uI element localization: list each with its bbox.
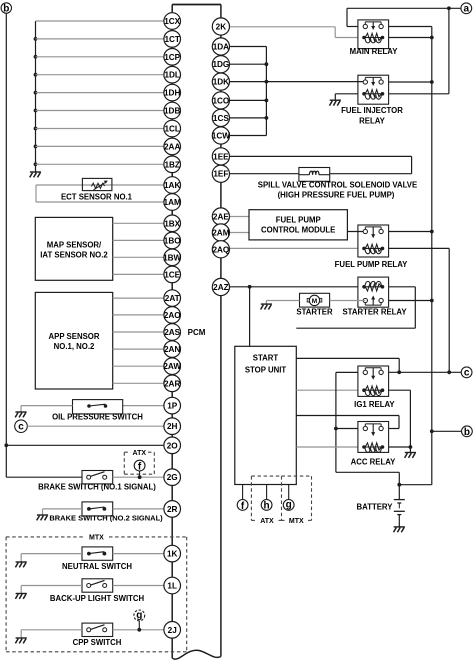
svg-text:ECT SENSOR NO.1: ECT SENSOR NO.1 <box>61 193 133 202</box>
svg-text:2H: 2H <box>167 422 178 431</box>
wire 1CO to injector bus <box>230 99 267 101</box>
wire ACC coil to ground <box>389 445 413 452</box>
ground (brake switch NO.2) <box>37 515 48 520</box>
svg-text:1BZ: 1BZ <box>164 160 179 169</box>
ground (back-up light switch) <box>15 594 26 599</box>
wire 2AZ tap to start stop unit <box>249 287 251 347</box>
PCM pin 2J <box>164 622 181 639</box>
PCM pin 1CL <box>164 120 181 137</box>
wire 2AE to fuel pump control module <box>230 216 250 218</box>
wire b rail (left) <box>4 13 82 477</box>
PCM pin 2AS <box>164 324 181 341</box>
node f (start stop unit) <box>237 500 248 512</box>
wire 1DH to ground bus <box>36 92 164 94</box>
svg-text:1P: 1P <box>167 402 178 411</box>
node g (start stop unit) <box>283 499 294 510</box>
wire f to 2G line <box>138 471 142 479</box>
svg-text:2K: 2K <box>216 23 227 32</box>
wire start stop unit stub to g <box>288 485 290 500</box>
svg-text:1CT: 1CT <box>164 35 179 44</box>
wire 1CX to ground bus <box>36 20 164 22</box>
PCM pin 1DL <box>164 66 181 83</box>
svg-text:1EF: 1EF <box>213 170 228 179</box>
PCM pin 1DB <box>164 102 181 119</box>
svg-text:STARTER RELAY: STARTER RELAY <box>342 308 407 317</box>
wire 2AS to APP sensor <box>113 331 164 333</box>
svg-text:1DL: 1DL <box>164 71 179 80</box>
ground (battery) <box>394 527 405 532</box>
ground (CPP switch) <box>15 638 26 643</box>
wire node b to B+ rail <box>432 430 462 432</box>
svg-text:BACK-UP LIGHT SWITCH: BACK-UP LIGHT SWITCH <box>50 594 145 603</box>
svg-text:b: b <box>3 4 9 15</box>
svg-text:2AZ: 2AZ <box>213 283 228 292</box>
wire back-up light switch to ground <box>21 586 82 594</box>
wire 2G to brake switch NO.1 <box>113 476 164 478</box>
wire 1DL to ground bus <box>36 74 164 76</box>
wire fuel pump relay coil to node c rail <box>389 248 450 372</box>
wire IG1 coil to ground <box>389 390 411 447</box>
svg-text:STARTER: STARTER <box>296 308 333 317</box>
svg-text:2AM: 2AM <box>212 229 229 238</box>
wire fuel pump relay contact to B+ rail <box>389 231 432 233</box>
wire start stop unit stub to f <box>242 485 244 500</box>
svg-text:1BX: 1BX <box>164 219 180 228</box>
svg-text:2AT: 2AT <box>165 294 180 303</box>
wire 1CL to ground bus <box>36 128 164 130</box>
svg-text:ATX: ATX <box>260 518 274 525</box>
svg-text:1CE: 1CE <box>164 270 180 279</box>
svg-text:1L: 1L <box>167 582 177 591</box>
battery <box>357 485 405 527</box>
PCM pin 2AQ <box>212 241 230 258</box>
starter relay <box>342 277 407 316</box>
PCM pin 2AE <box>212 208 229 225</box>
svg-text:IAT SENSOR NO.2: IAT SENSOR NO.2 <box>40 251 108 260</box>
MTX dashed box (start stop unit) <box>282 476 312 525</box>
PCM pin 1CP <box>164 49 181 66</box>
svg-text:BRAKE SWITCH (NO.1 SIGNAL): BRAKE SWITCH (NO.1 SIGNAL) <box>38 483 156 492</box>
PCM pin 1CE <box>164 266 181 283</box>
svg-text:2O: 2O <box>167 441 179 450</box>
fuel pump relay <box>335 225 408 269</box>
svg-text:2AR: 2AR <box>164 379 180 388</box>
wire start stop unit to ACC relay coil <box>296 446 358 448</box>
svg-text:1K: 1K <box>167 550 178 559</box>
wire starter to starter relay contact <box>330 300 366 302</box>
wire fuel injector relay contact to B+ rail <box>389 81 432 83</box>
svg-text:2G: 2G <box>167 473 178 482</box>
node c (to 2H) <box>15 420 28 433</box>
MTX dashed box <box>6 535 187 652</box>
wire 2AM to fuel pump control module <box>230 232 250 234</box>
svg-text:a: a <box>464 4 470 15</box>
wire brake switch NO.2 to ground <box>43 509 83 515</box>
wire starter relay contact to B+ rail <box>389 300 432 302</box>
wire IG1 contact to node c rail <box>389 370 462 374</box>
svg-text:1CW: 1CW <box>212 132 230 141</box>
svg-text:(HIGH PRESSURE FUEL PUMP): (HIGH PRESSURE FUEL PUMP) <box>278 191 395 200</box>
wire main relay contact to B+ rail <box>389 26 432 28</box>
svg-text:STOP UNIT: STOP UNIT <box>245 366 287 375</box>
PCM pin 2AW <box>163 358 181 375</box>
ground (sensor bus) <box>30 172 41 177</box>
ATX dashed box (brake) <box>124 450 154 474</box>
PCM pin 1DA <box>212 38 229 55</box>
PCM pin 1DH <box>164 84 181 101</box>
brake switch (NO.1 signal) <box>38 471 156 492</box>
wire 2AW to APP sensor <box>113 365 164 367</box>
wire start stop unit to ACC relay contact <box>296 416 399 429</box>
svg-text:1DA: 1DA <box>213 43 229 52</box>
wire 1L to back-up light switch <box>113 585 164 587</box>
PCM pin 2AN <box>164 341 181 358</box>
PCM pin 1BO <box>164 232 181 249</box>
ECT sensor NO.1 <box>36 185 164 202</box>
svg-text:1CS: 1CS <box>213 114 229 123</box>
svg-text:1AK: 1AK <box>164 181 180 190</box>
ground (starter) <box>261 304 272 309</box>
svg-text:ATX: ATX <box>133 450 147 457</box>
svg-text:1CP: 1CP <box>164 53 180 62</box>
svg-text:APP SENSOR: APP SENSOR <box>49 332 100 341</box>
wire 1P to oil pressure switch <box>123 405 164 407</box>
CPP switch <box>73 623 122 647</box>
wire ACC contact left to B+ branch <box>336 428 358 430</box>
wire starter relay coil to start stop unit <box>296 287 415 328</box>
PCM pin 1CX <box>164 13 181 30</box>
wire CPP switch to ground <box>21 630 82 638</box>
wire 1DG to injector bus <box>230 63 267 65</box>
svg-text:CPP SWITCH: CPP SWITCH <box>73 638 122 647</box>
svg-text:CONTROL MODULE: CONTROL MODULE <box>261 226 335 235</box>
wire 2J to CPP switch <box>113 629 164 631</box>
MAP sensor / IAT sensor NO.2 <box>35 217 112 280</box>
svg-text:PCM: PCM <box>188 328 206 337</box>
svg-text:1DG: 1DG <box>212 60 229 69</box>
svg-text:M: M <box>312 298 317 305</box>
svg-text:1BO: 1BO <box>164 236 181 245</box>
wire 1CW to injector bus <box>230 135 267 137</box>
svg-text:1AM: 1AM <box>164 198 181 207</box>
svg-text:2AN: 2AN <box>164 345 180 354</box>
PCM pin 1BW <box>163 249 181 266</box>
wire 2H to node c <box>27 425 164 427</box>
node h (start stop unit) <box>261 500 272 512</box>
wire neutral switch to ground <box>21 554 82 562</box>
wire fuel injector relay coil to ground <box>335 94 358 100</box>
PCM pin 1BX <box>164 215 181 232</box>
svg-text:NO.1, NO.2: NO.1, NO.2 <box>54 342 95 351</box>
svg-text:2AS: 2AS <box>164 328 180 337</box>
wire 2AR to APP sensor <box>113 382 164 384</box>
wire 1DK to fuel injector relay contact <box>230 81 366 83</box>
svg-text:SPILL VALVE CONTROL SOLENOID V: SPILL VALVE CONTROL SOLENOID VALVE <box>258 181 417 190</box>
node c (right) <box>461 367 472 379</box>
svg-text:1CO: 1CO <box>212 96 229 105</box>
svg-text:MTX: MTX <box>289 518 304 525</box>
svg-text:START: START <box>253 354 279 363</box>
wire start stop unit to IG1 relay coil <box>296 389 358 391</box>
svg-text:1DB: 1DB <box>164 107 180 116</box>
wire g to 2J line <box>137 621 141 632</box>
svg-text:2AW: 2AW <box>163 362 181 371</box>
wire 1DA to injector bus <box>230 46 267 48</box>
wire a rail to fuel injector relay coil <box>389 8 449 94</box>
svg-text:2AA: 2AA <box>164 142 180 151</box>
svg-text:2AO: 2AO <box>164 311 181 320</box>
PCM pin 1K <box>164 545 181 562</box>
svg-text:1BW: 1BW <box>163 253 181 262</box>
svg-text:2J: 2J <box>168 626 177 635</box>
fuel injector relay <box>341 75 403 125</box>
PCM pin 1EE <box>212 148 229 165</box>
ground (neutral switch) <box>15 562 26 567</box>
PCM pin 2AA <box>164 138 181 155</box>
svg-text:ACC RELAY: ACC RELAY <box>351 457 397 466</box>
svg-text:2AE: 2AE <box>213 213 229 222</box>
wire 1BZ to ground bus <box>36 163 164 165</box>
PCM pin 2AT <box>164 290 181 307</box>
svg-text:1CX: 1CX <box>164 17 180 26</box>
wire module to fuel pump relay contact <box>347 231 365 233</box>
PCM pin 2K <box>212 18 229 35</box>
svg-text:b: b <box>464 427 470 438</box>
PCM pin 1BZ <box>164 156 181 173</box>
svg-text:2R: 2R <box>167 505 178 514</box>
wire 2K to main relay coil <box>230 27 359 38</box>
thermistor symbol (ECT) <box>82 178 112 190</box>
svg-text:BATTERY: BATTERY <box>357 503 394 512</box>
wire 1CS to injector bus <box>230 117 267 119</box>
svg-text:1CL: 1CL <box>164 125 179 134</box>
svg-text:OIL PRESSURE SWITCH: OIL PRESSURE SWITCH <box>52 413 143 422</box>
PCM pin 1CT <box>164 31 181 48</box>
svg-text:RELAY: RELAY <box>359 117 386 126</box>
spill valve control solenoid valve <box>258 168 417 200</box>
PCM pin 1L <box>164 577 181 594</box>
svg-text:1EE: 1EE <box>213 152 229 161</box>
wire B+ rail (battery positive) <box>397 27 433 487</box>
PCM pin 1DK <box>212 73 229 90</box>
wire 2AZ to starter relay coil <box>230 285 359 289</box>
ground (IG1/ACC relay) <box>405 453 416 458</box>
svg-text:BRAKE SWITCH (NO.2 SIGNAL): BRAKE SWITCH (NO.2 SIGNAL) <box>49 514 163 523</box>
wire 1CP to ground bus <box>36 56 164 58</box>
wire main relay coil to B+ rail <box>389 36 434 40</box>
wire 1EE to spill valve <box>230 156 412 173</box>
wire 1DB to ground bus <box>36 110 164 112</box>
fuel pump control module <box>249 210 347 240</box>
svg-text:FUEL INJECTOR: FUEL INJECTOR <box>341 106 403 115</box>
start stop unit <box>235 346 296 484</box>
node g (CPP, dashed) <box>134 610 145 621</box>
wire IG1 contact left to B+ branch <box>334 372 399 484</box>
ACC relay <box>351 422 397 467</box>
wire start stop unit to node c (IG1 sense) <box>296 358 399 372</box>
PCM pin 2G <box>164 469 181 486</box>
svg-text:MAP SENSOR/: MAP SENSOR/ <box>47 241 102 250</box>
svg-text:2AQ: 2AQ <box>212 245 229 254</box>
wire 2AO to APP sensor <box>113 314 164 316</box>
wire 2AT to APP sensor <box>113 297 164 299</box>
wire 1CE to MAP sensor <box>113 273 164 275</box>
svg-text:IG1 RELAY: IG1 RELAY <box>354 400 395 409</box>
wire 2O to b rail <box>6 444 164 446</box>
svg-text:1DK: 1DK <box>213 78 229 87</box>
node b (right) <box>462 426 473 438</box>
svg-text:c: c <box>464 368 470 379</box>
svg-text:g: g <box>136 610 142 621</box>
wire oil pressure switch to ground <box>21 406 73 412</box>
node f (ATX brake) <box>134 460 145 472</box>
wire 2R to brake switch NO.2 <box>113 508 164 510</box>
wire 2AN to APP sensor <box>113 348 164 350</box>
wire starter to ground <box>266 301 299 304</box>
APP sensor NO.1, NO.2 <box>35 292 112 389</box>
main relay <box>350 20 399 56</box>
wire 1EF to spill valve <box>230 173 412 175</box>
node b (top left) <box>1 3 11 15</box>
PCM pin 1CW <box>212 127 230 144</box>
wire node a feed line (top) <box>347 6 461 26</box>
PCM pin 1AM <box>164 194 181 211</box>
svg-text:g: g <box>286 499 292 510</box>
ground (fuel injector relay) <box>330 100 341 105</box>
wire 1BO to MAP sensor <box>113 239 164 241</box>
PCM pin 1P <box>164 397 181 414</box>
PCM pin 2O <box>164 437 181 454</box>
svg-text:FUEL PUMP: FUEL PUMP <box>276 216 321 225</box>
starter motor <box>296 293 333 316</box>
wire start stop unit stub to h <box>266 485 268 500</box>
PCM connector body <box>172 5 221 660</box>
node a <box>461 3 472 15</box>
PCM pin 2AR <box>164 375 181 392</box>
ground (oil pressure switch) <box>15 412 26 417</box>
svg-text:MAIN RELAY: MAIN RELAY <box>350 47 399 56</box>
PCM pin 2H <box>164 418 181 435</box>
wire 2AA to ground bus <box>36 145 164 147</box>
brake switch (NO.2 signal) <box>49 502 163 523</box>
PCM pin 1EF <box>212 165 229 182</box>
PCM pin 2AM <box>212 224 229 241</box>
wire sensor ground bus <box>34 21 38 172</box>
PCM pin 2AZ <box>212 278 229 295</box>
PCM pin 1AK <box>164 177 181 194</box>
wire 2AQ to fuel pump relay coil <box>230 247 359 249</box>
PCM pin 2R <box>164 501 181 518</box>
svg-text:h: h <box>264 501 270 512</box>
svg-text:MTX: MTX <box>89 535 104 542</box>
back-up light switch <box>50 579 145 603</box>
svg-text:NEUTRAL SWITCH: NEUTRAL SWITCH <box>62 562 132 571</box>
PCM pin 2AO <box>164 307 181 324</box>
PCM pin 1DG <box>212 56 229 73</box>
ATX dashed box (start stop unit) <box>251 476 281 525</box>
PCM pin 1CS <box>212 109 229 126</box>
neutral switch <box>62 547 132 571</box>
wire 1CT to ground bus <box>36 38 164 40</box>
wire 1BX to MAP sensor <box>113 222 164 224</box>
PCM pin 1CO <box>212 92 230 109</box>
svg-text:1DH: 1DH <box>164 89 180 98</box>
wire 1K to neutral switch <box>113 553 164 555</box>
IG1 relay <box>354 366 395 409</box>
oil pressure switch <box>52 400 143 422</box>
svg-text:c: c <box>18 422 24 433</box>
wire injector bus <box>265 47 269 136</box>
svg-text:FUEL PUMP RELAY: FUEL PUMP RELAY <box>335 260 408 269</box>
wire 1BW to MAP sensor <box>113 256 164 258</box>
